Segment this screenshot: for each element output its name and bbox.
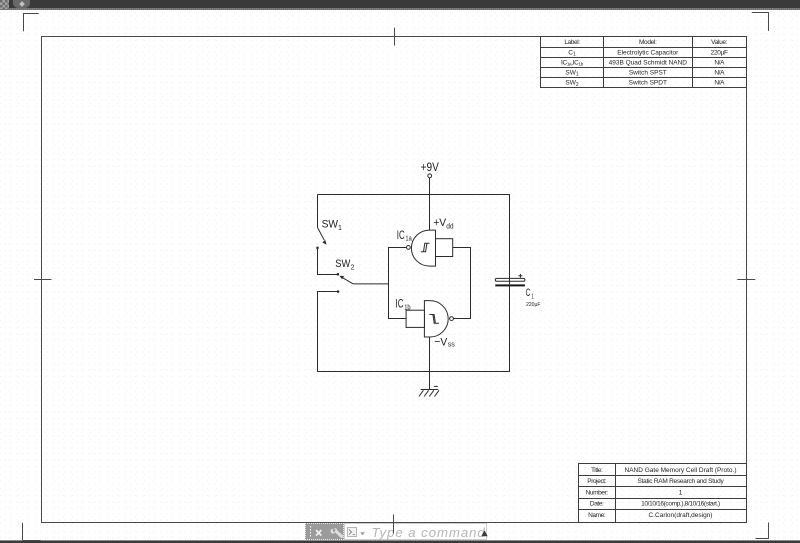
parts table: [541, 37, 747, 88]
svg-text:1b: 1b: [404, 304, 411, 312]
label IC1a: [397, 229, 412, 242]
svg-text:Date:: Date:: [590, 501, 604, 508]
svg-text:1a: 1a: [405, 235, 412, 243]
wire loop right (C1 branch): [509, 195, 511, 372]
svg-text:SW2: SW2: [565, 80, 578, 88]
svg-text:Switch SPDT: Switch SPDT: [629, 80, 667, 87]
wrench icon: [330, 528, 344, 540]
svg-text:C.Carlon(draft,design): C.Carlon(draft,design): [649, 512, 713, 519]
svg-text:SW: SW: [322, 218, 338, 230]
switch SW1: [316, 218, 342, 249]
svg-text:C: C: [526, 286, 531, 298]
svg-text:1: 1: [531, 292, 534, 300]
svg-text:−V: −V: [434, 336, 448, 349]
parts table text: [561, 39, 728, 88]
svg-text:2: 2: [351, 264, 355, 271]
command bar : grey tool box: [305, 523, 345, 540]
svg-text:C1: C1: [568, 49, 576, 57]
svg-text:Switch SPST: Switch SPST: [629, 70, 667, 77]
NAND gate IC1a (points left): [407, 230, 453, 266]
wire SW2 common to latch node: [353, 283, 388, 285]
svg-text:Project:: Project:: [587, 478, 606, 485]
svg-text:Label:: Label:: [564, 39, 580, 46]
ground: [419, 386, 439, 396]
svg-text:IC: IC: [397, 229, 405, 242]
svg-text:1: 1: [338, 225, 342, 232]
svg-text:10/10/16(comp.),8/10/16(start.: 10/10/16(comp.),8/10/16(start.): [641, 501, 720, 508]
switch SW2: [335, 258, 354, 292]
wire IC1a output to IC1b input (latch node): [389, 248, 407, 319]
bottom window bar: [0, 540, 800, 542]
svg-text:1: 1: [679, 489, 683, 496]
wire SW1 to SW2 common: [318, 249, 338, 275]
svg-text:220µF: 220µF: [711, 49, 728, 56]
wire loop top: [318, 194, 511, 196]
svg-text:N/A: N/A: [714, 70, 725, 77]
top window bar: [0, 0, 800, 8]
svg-text:Model:: Model:: [639, 39, 657, 46]
wire left rail upper: [317, 195, 319, 228]
svg-text:Electrolytic Capacitor: Electrolytic Capacitor: [617, 49, 679, 56]
power terminal +9V: [421, 161, 440, 177]
svg-text:Static RAM Research and Study: Static RAM Research and Study: [638, 478, 725, 485]
label 220uF: [526, 302, 540, 308]
capacitor C1: [495, 274, 525, 287]
svg-text:ss: ss: [448, 342, 456, 349]
wire loop bottom: [318, 371, 511, 373]
svg-text:220µF: 220µF: [526, 302, 540, 308]
svg-text:N/A: N/A: [714, 60, 725, 67]
wire SW2 lower throw to loop bottom: [318, 292, 338, 372]
wire IC1a input to IC1b output: [453, 248, 471, 319]
svg-text:NAND Gate Memory Cell Draft (P: NAND Gate Memory Cell Draft (Proto.): [625, 467, 737, 474]
svg-text:SW1: SW1: [565, 70, 578, 78]
title block: [579, 464, 747, 523]
svg-text:IC: IC: [396, 298, 404, 311]
svg-text:+V: +V: [433, 216, 447, 229]
svg-text:Title:: Title:: [591, 467, 603, 474]
wire +9V down to IC1a top: [429, 178, 431, 230]
svg-text:N/A: N/A: [714, 80, 725, 87]
svg-text:+9V: +9V: [421, 161, 440, 174]
svg-text:Name:: Name:: [588, 512, 606, 519]
label -Vss: [434, 336, 455, 349]
wire IC1b bottom to ground: [429, 337, 431, 390]
label C1: [526, 286, 534, 300]
command input field: [344, 523, 487, 540]
label IC1b: [396, 298, 411, 311]
title block text: [586, 467, 737, 519]
svg-text:Value:: Value:: [711, 39, 728, 46]
svg-text:IC1a,IC1b: IC1a,IC1b: [561, 60, 584, 67]
NAND gate IC1b (points right): [406, 301, 453, 337]
svg-text:dd: dd: [446, 223, 454, 230]
svg-text:493B Quad Schmidt NAND: 493B Quad Schmidt NAND: [609, 60, 688, 67]
svg-text:Number:: Number:: [586, 489, 609, 496]
label +Vdd: [433, 216, 454, 230]
svg-text:SW: SW: [335, 258, 350, 270]
